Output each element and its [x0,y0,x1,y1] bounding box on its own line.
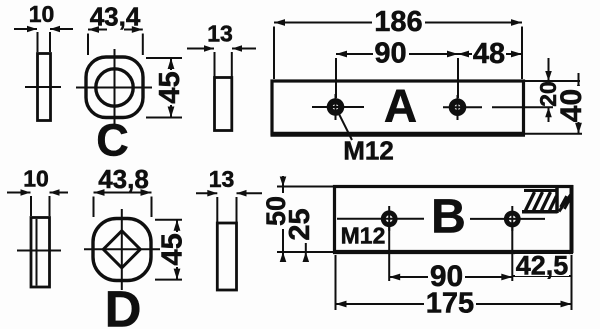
hatching strokes of bevel triangle [561,196,571,209]
svg-text:45: 45 [154,71,186,103]
leader line M12 (plate A) [339,114,352,140]
dimension text 48 (plate A) [472,38,506,70]
plate B holes horizontal centerline left part [337,218,424,220]
washer D horizontal centerline [84,248,160,250]
svg-text:M12: M12 [343,136,394,166]
extension line below left hole (90) [388,226,390,281]
dimension line 50 upper outside tail [280,176,287,187]
dimension line 25 lower outside tail [303,252,310,262]
label M12 (plate B) [341,223,386,249]
dimension text 50 rotated [261,193,291,229]
dimension text 43,4 (washer C width) [90,2,141,32]
dimension text 13 (plate B thickness) [209,166,235,192]
washer D side view rectangle [31,218,50,288]
dimension line 13 right tail (B) [237,190,263,197]
extension line right of 13 (B) [236,197,238,222]
washer C side view rectangle [38,54,51,121]
extension line right of 175 (plate B right edge continued) [571,255,573,310]
hole right of plate B [504,206,521,231]
dimension line 186 [274,19,522,26]
plate B side view rectangle [217,223,236,290]
dimension text 186 [372,6,425,38]
svg-text:13: 13 [209,166,235,192]
plate B outline [333,185,573,253]
washer C horizontal centerline [76,87,152,89]
svg-text:C: C [96,115,129,166]
svg-text:A: A [384,80,417,132]
extension line below right hole (90 / 42,5) [511,226,513,281]
top edge extension left of plate B [277,186,335,188]
centerline extension right (for 20) [492,106,553,108]
top edge extension right of plate A [525,80,580,82]
extension line top of 45 (D) [155,219,182,221]
dimension line 48 (plate A) [458,51,522,58]
dimension text 20 rotated [535,81,561,107]
part label D [105,281,142,329]
dimension line 42,5 [512,275,571,277]
washer C hole circle [96,69,133,106]
svg-text:B: B [431,191,466,244]
extension line left of 10 (D) [30,196,32,216]
dimension line 43,4 left segment with arrow [88,26,107,33]
washer D vertical centerline [121,209,123,290]
blade section hatched band bottom line [522,210,558,214]
extension line left of 13 (B) [216,197,218,222]
washer C outer blank (rounded square) [86,57,143,118]
dimension line 25 upper outside tail [303,209,310,219]
dimension line 10 left tail (D) [7,189,31,196]
plate A outline [271,81,526,134]
svg-text:10: 10 [29,1,55,27]
blade section hatched band top line [524,189,557,192]
blade bevel diagonal [559,194,572,212]
svg-text:45: 45 [157,233,189,265]
extension line right of 10 [49,32,51,52]
dimension line 50 lower outside tail [280,252,287,262]
dimension line 45 (C) vertical [168,58,175,118]
dimension line 43,8 [94,189,152,196]
svg-text:13: 13 [207,21,233,47]
dimension line 10 right tail [50,26,73,33]
washer D side view inner line [36,219,38,286]
extension line right of 13 [231,52,233,78]
extension line left of 186 [273,27,275,80]
plate A side view rectangle [215,78,232,131]
dimension line 10 right tail (D) [50,189,69,196]
dimension line 13 right tail [232,45,256,52]
dimension line 43,4 right segment with arrow [124,26,143,33]
extension line from right hole up (90/48) [457,58,459,98]
hole left of plate A (M12) [312,94,364,120]
dimension line 10 left tail [14,26,37,33]
dimension line 20 lower tail [545,107,552,122]
hole right of plate A [443,95,482,120]
dimension line 13 left tail (B) [196,190,217,197]
extension line bottom of 45 (C) [146,117,182,119]
bottom edge extension left of plate B [277,251,335,253]
extension line top of 45 (C) [146,57,182,59]
svg-text:90: 90 [374,38,406,70]
blade section vertical line [555,187,559,214]
label M12 (plate A) [343,136,394,166]
washer D side view centerline [17,250,61,252]
extension line left of 175 (plate B left edge continued) [335,255,337,310]
svg-text:40: 40 [555,89,588,122]
washer D square hole (diamond) [103,231,140,268]
svg-text:25: 25 [284,208,316,240]
hole left of plate B (M12) [381,206,398,231]
extension line left of 10 [37,32,39,52]
tick above top extension at 40 dim [578,73,580,81]
washer C side view centerline [25,86,61,88]
svg-text:42,5: 42,5 [516,251,569,281]
dimension line 40 vertical [575,81,582,134]
dimension text 90 (plate B) [428,260,465,293]
part label A [384,80,417,132]
dimension text 43,8 (washer D width) [98,164,149,194]
extension line left of 13 [214,52,216,78]
svg-text:10: 10 [23,166,49,192]
dimension line 25 vertical [305,219,307,252]
dimension line 90 (plate A) [336,51,458,58]
part label C [96,115,129,166]
dimension line 45 (D) vertical [174,220,181,280]
plate B holes horizontal centerline right part [470,218,545,220]
dimension line 13 left tail [187,45,214,52]
centerline extension left (for 25) [292,218,310,220]
dimension line 175 [336,301,572,308]
hatching strokes of blade band [526,192,557,211]
extension line right of 186 [521,27,523,80]
extension line right of 43,4 [142,34,144,56]
extension line left of 43,4 [87,34,89,56]
dimension line 90 (plate B) [389,274,512,281]
bottom edge extension right of plate A [525,133,582,135]
washer C vertical centerline [114,49,116,127]
extension line bottom of 45 (D) [155,279,182,281]
dimension text 175 [424,288,476,320]
part label B [431,191,466,244]
extension line left of 43,8 [93,197,95,218]
extension line right of 10 (D) [49,196,51,216]
svg-text:M12: M12 [341,223,386,249]
washer D outer blank (rounded square) [93,219,151,281]
dimension text 40 rotated [555,86,588,122]
extension line right of 43,8 [151,197,153,218]
svg-text:D: D [105,281,142,329]
dimension line 50 vertical [282,187,284,253]
dimension text 45 (D) rotated [157,232,189,267]
dimension text 10 (washer D thickness) [23,166,49,192]
dimension text 25 rotated [284,207,316,243]
dimension text 42,5 [515,251,569,281]
dimension line 20 upper tail [545,58,552,81]
dimension text 45 (C) rotated [154,70,186,105]
dimension text 10 (washer C thickness) [29,1,55,27]
dimension text 90 (plate A) [373,38,409,70]
svg-text:175: 175 [426,288,474,320]
dimension text 13 (plate A thickness) [207,21,233,47]
svg-text:186: 186 [374,6,422,38]
svg-text:48: 48 [473,38,505,70]
extension line from left hole up (90) [335,58,337,98]
